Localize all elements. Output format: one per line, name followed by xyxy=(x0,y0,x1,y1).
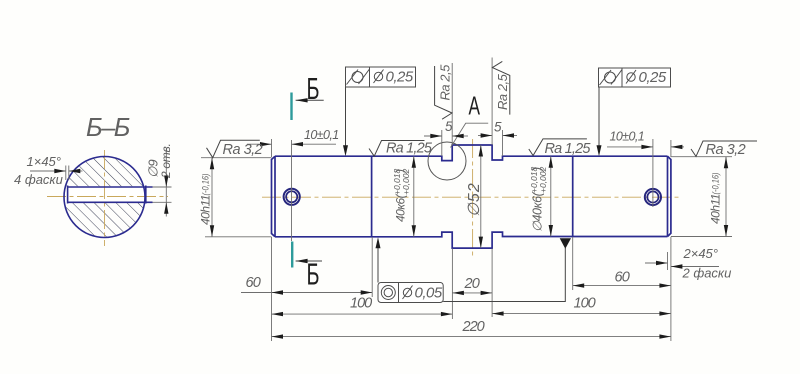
detail circle A xyxy=(428,142,466,180)
datum triangle xyxy=(560,238,571,249)
chamfer 2x45 shelf with arrow xyxy=(671,266,719,268)
extension line groove left wall up xyxy=(441,130,443,156)
value 0.25 xyxy=(627,73,635,81)
dim 40k6 left vertical xyxy=(413,156,415,237)
extension line right end top xyxy=(670,140,672,157)
chamfer 2x45 ticks xyxy=(667,252,669,270)
svg-text:60: 60 xyxy=(615,270,630,286)
slot right end cap xyxy=(145,186,147,204)
svg-text:2 фаски: 2 фаски xyxy=(682,266,732,281)
dim 10+-0.1 left xyxy=(247,143,272,145)
dim 10+-0.1 right xyxy=(607,146,653,148)
slot left end cap xyxy=(67,186,69,204)
dim 40h11 left vertical xyxy=(211,158,213,237)
extension line left step down xyxy=(371,237,373,297)
shaft main centerline xyxy=(262,196,680,198)
svg-text:0,25: 0,25 xyxy=(386,69,414,86)
shaft vertical centerline of collar xyxy=(472,139,474,256)
svg-text:100: 100 xyxy=(574,296,596,312)
svg-text:∅40к6(: ∅40к6( xyxy=(531,190,545,232)
section arrow top xyxy=(296,99,324,101)
svg-text:40к6(: 40к6( xyxy=(394,192,408,222)
dim 5 right groove xyxy=(478,135,492,137)
extension line groove right wall up xyxy=(502,130,504,156)
extension lines right 40h11 xyxy=(671,156,732,158)
svg-text:0,25: 0,25 xyxy=(639,69,667,86)
right hole outer circle xyxy=(645,189,661,205)
shaft left chamfer line xyxy=(274,156,276,237)
svg-text:2×45°: 2×45° xyxy=(683,246,718,261)
svg-text:∅52: ∅52 xyxy=(466,182,483,217)
extension line right step down xyxy=(572,237,574,290)
extension line left hole center xyxy=(291,140,293,241)
dim 60 left xyxy=(241,292,372,294)
dim 40h11 right vertical xyxy=(725,157,727,237)
chamfer dim line right with arrow xyxy=(69,170,83,172)
left hole inner circle xyxy=(286,191,297,202)
dim 5 left groove xyxy=(424,135,442,137)
leader left frame xyxy=(345,87,347,151)
svg-text:4 фаски: 4 фаски xyxy=(14,172,63,187)
label 40k6 left rotated xyxy=(392,168,411,222)
chamfer 2x45 dim left arrow xyxy=(645,262,668,264)
svg-text:5: 5 xyxy=(445,119,453,134)
dim 20 collar xyxy=(452,292,492,294)
svg-text:(-0,16): (-0,16) xyxy=(201,174,211,196)
shaft right chamfer line xyxy=(667,156,669,236)
chamfer extension ticks xyxy=(65,166,67,181)
extension line collar left face down xyxy=(451,249,453,320)
svg-text:1×45°: 1×45° xyxy=(27,154,61,169)
svg-text:5: 5 xyxy=(494,120,502,135)
extension line right end down xyxy=(670,237,672,341)
section cut mark B top xyxy=(290,93,292,121)
extension line collar left face up xyxy=(451,63,453,145)
roughness Ra 2.5 left rotated xyxy=(435,64,453,119)
svg-text:60: 60 xyxy=(246,275,261,291)
leader right frame xyxy=(598,87,600,151)
runout symbol xyxy=(352,72,363,83)
label diam40k6 right rotated xyxy=(529,166,548,232)
svg-text:Ra 3,2: Ra 3,2 xyxy=(223,142,263,158)
roughness Ra 3.2 right xyxy=(691,141,757,158)
svg-text:Ra 1,25: Ra 1,25 xyxy=(545,141,592,157)
dim 40k6 right vertical xyxy=(550,156,552,236)
svg-text:2 отв.: 2 отв. xyxy=(159,144,173,179)
dim 100 right xyxy=(492,313,671,315)
svg-text:10±0,1: 10±0,1 xyxy=(304,128,339,142)
label 40h11 left rotated xyxy=(199,174,213,226)
svg-text:20: 20 xyxy=(464,276,480,292)
leader to datum xyxy=(443,248,565,302)
leader concentricity up arrow xyxy=(377,242,379,283)
svg-text:Ra 2,5: Ra 2,5 xyxy=(495,73,510,110)
svg-text:100: 100 xyxy=(350,296,372,312)
extension line left end top xyxy=(271,139,273,157)
dia9 extension lines xyxy=(153,186,172,188)
roughness Ra 1.25 right xyxy=(529,139,592,157)
slot keyway bottom edge xyxy=(68,201,153,203)
svg-text:40h11: 40h11 xyxy=(199,195,213,225)
tolerance frame runout left xyxy=(346,67,416,87)
svg-text:Б: Б xyxy=(307,257,320,292)
roughness Ra 2.5 right rotated xyxy=(492,61,510,114)
svg-text:(-0,16): (-0,16) xyxy=(711,173,721,195)
section centerline vertical xyxy=(104,150,106,246)
right hole inner circle xyxy=(647,191,658,202)
dia9 dimension line vertical xyxy=(165,149,167,217)
svg-text:10±0,1: 10±0,1 xyxy=(610,130,645,144)
section circle outline xyxy=(64,157,145,238)
value 0.25 xyxy=(374,72,382,80)
roughness Ra 3.2 left xyxy=(207,140,263,158)
tolerance frame concentricity xyxy=(378,283,443,303)
dim 60 right xyxy=(573,285,671,287)
detail leader A xyxy=(451,123,489,147)
dim diam52 vertical xyxy=(480,145,482,248)
shaft step line right 40k6/40h11 xyxy=(572,156,574,236)
section cut mark B bottom xyxy=(291,242,293,268)
shaft outline xyxy=(272,145,671,248)
dim 220 overall xyxy=(272,336,671,338)
svg-text:Ra 2,5: Ra 2,5 xyxy=(438,64,453,101)
svg-text:40h11: 40h11 xyxy=(709,194,723,224)
runout symbol xyxy=(605,72,616,83)
svg-text:Б–Б: Б–Б xyxy=(86,114,130,142)
extension line left end down xyxy=(271,237,273,341)
section arrow bottom xyxy=(296,260,322,262)
label 40h11 right rotated xyxy=(709,173,723,225)
chamfer dim line left with arrow xyxy=(30,170,66,172)
left hole outer circle xyxy=(284,189,300,205)
svg-text:Ra 3,2: Ra 3,2 xyxy=(706,142,746,158)
dim 100 left xyxy=(272,313,453,315)
svg-text:А: А xyxy=(469,91,481,121)
svg-text:0,05: 0,05 xyxy=(415,285,443,302)
shaft step line left 40h11/40k6 xyxy=(371,156,373,237)
svg-text:Б: Б xyxy=(307,71,320,106)
section centerline horizontal xyxy=(47,196,168,198)
extension line collar right face up xyxy=(491,58,493,146)
slot keyway top edge xyxy=(68,186,153,188)
value 0.05 xyxy=(403,288,411,296)
extension line collar right face down xyxy=(491,249,493,318)
svg-text:220: 220 xyxy=(462,319,485,335)
extension line right hole center xyxy=(652,139,654,207)
extension lines left 40h11 xyxy=(201,157,272,159)
svg-text:Ra 1,25: Ra 1,25 xyxy=(386,141,433,157)
roughness Ra 1.25 left xyxy=(369,141,433,157)
tolerance frame runout right xyxy=(599,68,671,87)
